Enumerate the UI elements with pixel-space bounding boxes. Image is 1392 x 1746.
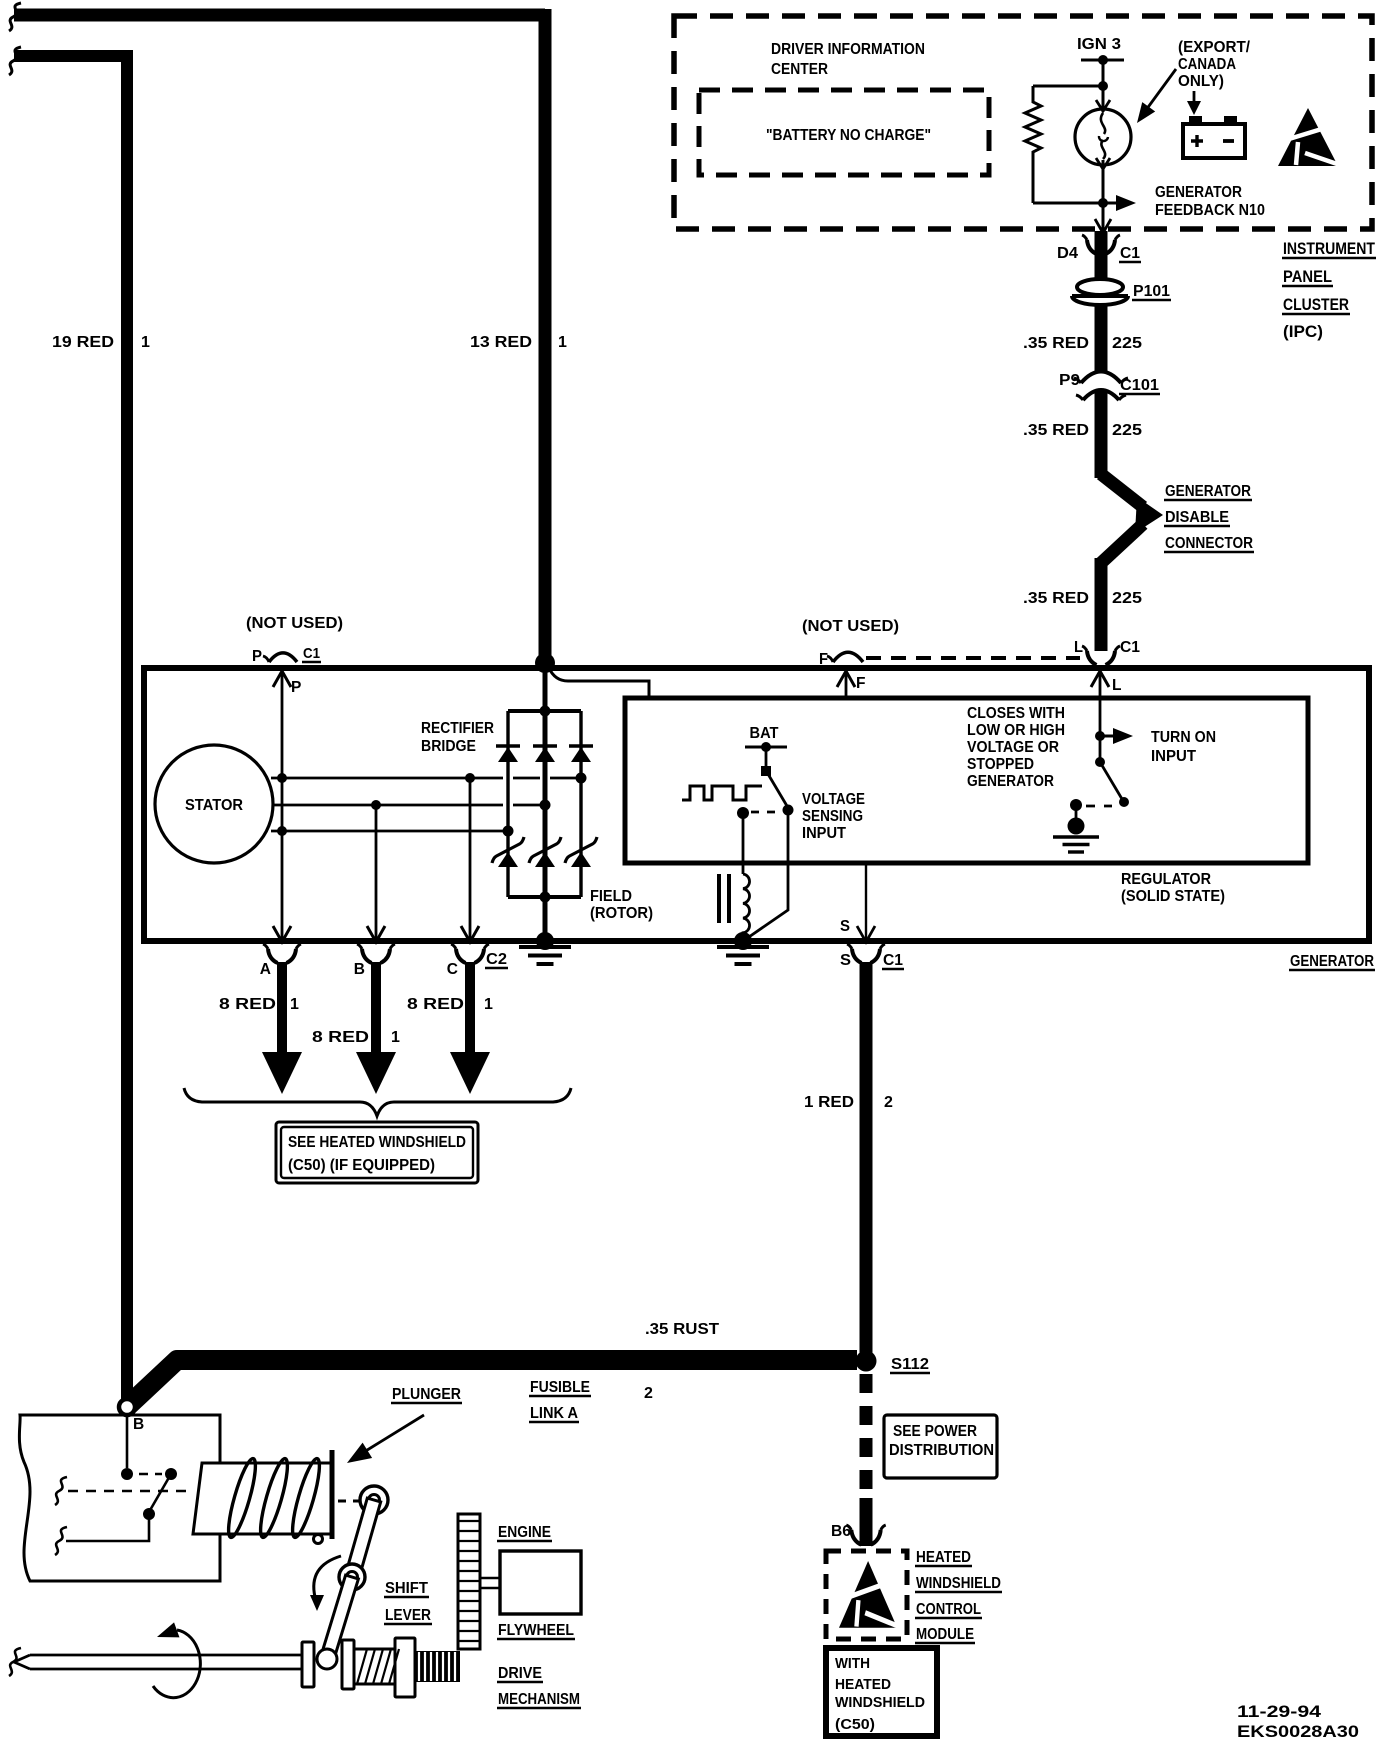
svg-text:2: 2: [644, 1385, 653, 1402]
svg-text:1: 1: [141, 334, 150, 351]
svg-text:FUSIBLE: FUSIBLE: [530, 1379, 590, 1396]
svg-text:F: F: [856, 675, 865, 692]
svg-text:CLUSTER: CLUSTER: [1283, 296, 1349, 314]
svg-text:D4: D4: [1057, 245, 1078, 262]
svg-text:L: L: [1112, 677, 1121, 694]
svg-text:8 RED: 8 RED: [219, 996, 276, 1013]
svg-text:CANADA: CANADA: [1178, 56, 1236, 73]
svg-text:S: S: [840, 918, 850, 935]
svg-text:MECHANISM: MECHANISM: [498, 1691, 580, 1708]
svg-text:A: A: [260, 961, 271, 978]
svg-text:11-29-94: 11-29-94: [1237, 1702, 1322, 1721]
svg-text:(EXPORT/: (EXPORT/: [1178, 39, 1251, 56]
svg-text:C1: C1: [303, 645, 320, 662]
svg-text:"BATTERY NO CHARGE": "BATTERY NO CHARGE": [766, 127, 931, 144]
svg-text:CLOSES WITH: CLOSES WITH: [967, 705, 1065, 722]
svg-text:HEATED: HEATED: [835, 1677, 891, 1693]
svg-text:HEATED: HEATED: [916, 1549, 971, 1566]
svg-text:225: 225: [1112, 422, 1142, 439]
svg-text:GENERATOR: GENERATOR: [1165, 483, 1251, 500]
svg-text:1: 1: [558, 334, 567, 351]
svg-text:B: B: [354, 961, 365, 978]
svg-text:P: P: [252, 648, 262, 665]
svg-text:225: 225: [1112, 590, 1142, 607]
svg-text:B: B: [133, 1416, 144, 1433]
svg-text:EKS0028A30: EKS0028A30: [1237, 1722, 1359, 1741]
svg-text:CENTER: CENTER: [771, 61, 828, 78]
svg-text:VOLTAGE OR: VOLTAGE OR: [967, 739, 1059, 756]
svg-text:DISTRIBUTION: DISTRIBUTION: [889, 1442, 994, 1459]
svg-text:GENERATOR: GENERATOR: [1290, 953, 1374, 970]
svg-text:FLYWHEEL: FLYWHEEL: [498, 1622, 574, 1639]
svg-text:8 RED: 8 RED: [312, 1029, 369, 1046]
svg-text:13 RED: 13 RED: [470, 334, 532, 351]
svg-text:S: S: [840, 952, 851, 969]
svg-text:FIELD: FIELD: [590, 888, 632, 905]
svg-text:LOW OR HIGH: LOW OR HIGH: [967, 722, 1065, 739]
svg-text:SEE POWER: SEE POWER: [893, 1423, 977, 1440]
svg-text:SENSING: SENSING: [802, 808, 863, 825]
svg-text:(C50): (C50): [835, 1717, 875, 1733]
svg-text:LINK A: LINK A: [530, 1405, 578, 1422]
svg-text:2: 2: [884, 1094, 893, 1111]
svg-text:1: 1: [290, 996, 299, 1013]
svg-text:.35 RED: .35 RED: [1023, 422, 1089, 439]
svg-text:IGN 3: IGN 3: [1077, 36, 1121, 53]
svg-text:P101: P101: [1133, 283, 1170, 300]
svg-text:(ROTOR): (ROTOR): [590, 905, 653, 922]
svg-text:1: 1: [391, 1029, 400, 1046]
svg-text:1: 1: [484, 996, 493, 1013]
svg-text:(NOT USED): (NOT USED): [246, 615, 343, 632]
svg-text:WITH: WITH: [835, 1656, 870, 1672]
svg-text:19 RED: 19 RED: [52, 334, 114, 351]
svg-text:DRIVER INFORMATION: DRIVER INFORMATION: [771, 41, 925, 58]
svg-text:DRIVE: DRIVE: [498, 1665, 542, 1682]
svg-text:WINDSHIELD: WINDSHIELD: [835, 1695, 925, 1711]
svg-text:INPUT: INPUT: [1151, 748, 1197, 765]
svg-text:1 RED: 1 RED: [804, 1094, 854, 1111]
svg-text:(C50) (IF EQUIPPED): (C50) (IF EQUIPPED): [288, 1157, 435, 1174]
svg-text:CONTROL: CONTROL: [916, 1601, 981, 1618]
svg-text:STOPPED: STOPPED: [967, 756, 1034, 773]
svg-text:C101: C101: [1120, 377, 1159, 394]
svg-text:RECTIFIER: RECTIFIER: [421, 720, 494, 737]
svg-text:DISABLE: DISABLE: [1165, 509, 1229, 526]
svg-text:(NOT USED): (NOT USED): [802, 618, 899, 635]
svg-text:CONNECTOR: CONNECTOR: [1165, 535, 1253, 552]
svg-text:BAT: BAT: [750, 725, 779, 742]
svg-text:GENERATOR: GENERATOR: [1155, 184, 1242, 201]
svg-text:SEE HEATED WINDSHIELD: SEE HEATED WINDSHIELD: [288, 1134, 466, 1151]
svg-text:SHIFT: SHIFT: [385, 1580, 429, 1597]
svg-text:P: P: [291, 679, 301, 696]
svg-text:F: F: [819, 651, 828, 668]
svg-text:WINDSHIELD: WINDSHIELD: [916, 1575, 1001, 1592]
svg-text:VOLTAGE: VOLTAGE: [802, 791, 865, 808]
svg-text:ONLY): ONLY): [1178, 73, 1224, 90]
svg-text:GENERATOR: GENERATOR: [967, 773, 1054, 790]
svg-text:C1: C1: [1120, 639, 1140, 656]
svg-text:P9: P9: [1059, 372, 1080, 389]
svg-text:ENGINE: ENGINE: [498, 1524, 551, 1541]
svg-text:PANEL: PANEL: [1283, 268, 1332, 286]
svg-text:.35 RED: .35 RED: [1023, 590, 1089, 607]
svg-text:.35 RED: .35 RED: [1023, 335, 1089, 352]
svg-text:INPUT: INPUT: [802, 825, 847, 842]
svg-text:C1: C1: [883, 952, 903, 969]
svg-text:(SOLID STATE): (SOLID STATE): [1121, 888, 1225, 905]
svg-text:225: 225: [1112, 335, 1142, 352]
svg-text:C: C: [447, 961, 458, 978]
svg-text:C1: C1: [1120, 245, 1140, 262]
svg-text:8 RED: 8 RED: [407, 996, 464, 1013]
svg-text:INSTRUMENT: INSTRUMENT: [1283, 240, 1375, 258]
svg-text:.35 RUST: .35 RUST: [645, 1321, 719, 1338]
svg-text:S112: S112: [891, 1356, 929, 1373]
svg-text:TURN ON: TURN ON: [1151, 729, 1216, 746]
svg-text:C2: C2: [486, 951, 507, 968]
svg-text:MODULE: MODULE: [916, 1626, 974, 1643]
svg-text:FEEDBACK N10: FEEDBACK N10: [1155, 202, 1265, 219]
svg-text:STATOR: STATOR: [185, 797, 243, 814]
svg-text:PLUNGER: PLUNGER: [392, 1386, 461, 1403]
svg-text:(IPC): (IPC): [1283, 323, 1323, 341]
svg-text:LEVER: LEVER: [385, 1607, 431, 1624]
svg-text:REGULATOR: REGULATOR: [1121, 871, 1211, 888]
svg-text:BRIDGE: BRIDGE: [421, 738, 476, 755]
